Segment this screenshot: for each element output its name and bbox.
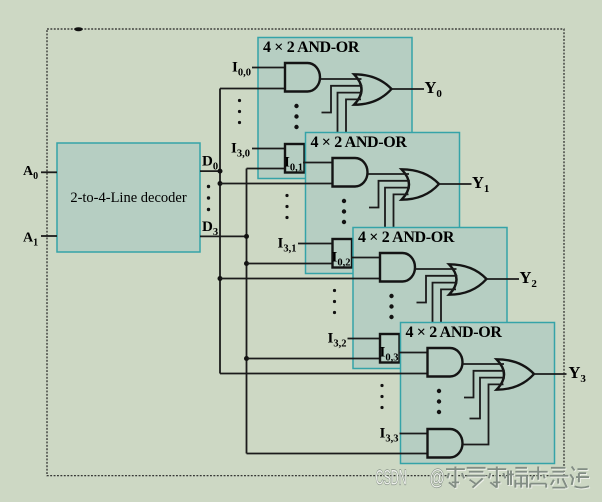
or-gate of block B4 <box>497 359 535 389</box>
or-gate of block B1 <box>354 74 392 104</box>
wire bus D3 vertical <box>246 169 248 454</box>
wire OR output Y1 <box>439 183 472 185</box>
wire bus D0 branch to block B3 top AND <box>220 278 380 280</box>
ellipsis dots inside block B4 <box>437 389 441 414</box>
wire input I3,1 <box>298 243 333 245</box>
wire input I3,3 <box>400 433 428 435</box>
wire input I0,0 <box>252 67 285 69</box>
ellipsis dots left of block B2 <box>285 194 288 219</box>
or-gate of block B2 <box>402 169 440 199</box>
and-gate top of block B4 <box>428 348 463 377</box>
wire bus D3 branch to block B4 bottom AND <box>247 453 428 455</box>
ellipsis dots left of block B3 <box>333 289 336 314</box>
node D0-bus junction <box>218 169 223 174</box>
node bus2-to-block3 junction <box>244 356 249 361</box>
dashed enclosure border <box>47 29 564 476</box>
ellipsis dots left of block B4 <box>380 384 383 409</box>
wire top AND output to OR <box>320 78 362 80</box>
wire input I0,3 <box>399 352 428 354</box>
4x2 AND-OR block B4 <box>401 323 555 464</box>
wire OR output Y2 <box>487 278 520 280</box>
wire hidden-gate feeder B <box>375 188 410 229</box>
4x2 AND-OR block B3 <box>353 228 507 369</box>
wire top AND output to OR <box>415 268 457 270</box>
wire hidden-gate feeder A <box>464 371 505 398</box>
wire A1 input <box>41 235 57 237</box>
wire A0 input <box>41 171 57 173</box>
wire bus D3 branch to block B2 bottom AND <box>247 263 333 265</box>
svg-text:4 × 2 AND-OR: 4 × 2 AND-OR <box>406 324 503 341</box>
wire bus D0 branch to block B1 top AND <box>220 88 285 90</box>
node D3-bus junction <box>244 234 249 239</box>
wire bottom AND output to OR <box>463 384 504 444</box>
wire bus D3 branch to block B3 bottom AND <box>247 358 381 360</box>
wire hidden-gate feeder B <box>422 283 457 324</box>
and-gate bottom of block B4 <box>428 429 463 458</box>
wire hidden-gate feeder B <box>327 93 362 134</box>
and-gate top of block B3 <box>380 253 415 282</box>
and-gate bottom of block B2 <box>333 239 353 268</box>
wire input I0,2 <box>352 257 381 259</box>
wire OR output Y0 <box>392 88 425 90</box>
and-gate top of block B1 <box>285 63 320 92</box>
wire hidden-gate feeder A <box>369 181 410 208</box>
wire bus D0 branch to block B4 top AND <box>220 373 428 375</box>
svg-text:4 × 2 AND-OR: 4 × 2 AND-OR <box>263 39 360 56</box>
node bus2-to-block2 junction <box>244 261 249 266</box>
wire bottom AND output to OR <box>368 194 409 254</box>
4x2 AND-OR block B2 <box>306 133 460 274</box>
and-gate bottom of block B1 <box>285 144 305 173</box>
wire top AND output to OR <box>463 363 505 365</box>
wire D0 from decoder <box>200 170 220 172</box>
svg-text:CSDN: CSDN <box>376 466 407 490</box>
svg-text:4 × 2 AND-OR: 4 × 2 AND-OR <box>311 134 408 151</box>
wire D3 from decoder <box>200 235 247 237</box>
wire bottom AND output to OR <box>415 289 456 349</box>
wire input I3,0 <box>252 148 285 150</box>
smudge mark on top border <box>74 27 82 31</box>
and-gate top of block B2 <box>333 158 368 187</box>
node bus-to-block3 junction <box>218 276 223 281</box>
ellipsis dots inside block B2 <box>342 199 346 224</box>
svg-text:@: @ <box>430 466 445 489</box>
watermark pseudo-CJK glyphs <box>446 467 590 489</box>
wire OR output Y3 <box>534 373 567 375</box>
wire bus D0 branch to block B2 top AND <box>220 183 333 185</box>
svg-text:4 × 2 AND-OR: 4 × 2 AND-OR <box>358 229 455 246</box>
ellipsis dots between D0 and D3 <box>207 185 210 211</box>
ellipsis dots left of block B1 <box>238 99 241 124</box>
wire bottom AND output to OR <box>320 99 361 159</box>
svg-text:2-to-4-Line decoder: 2-to-4-Line decoder <box>70 190 187 206</box>
decoder box U1: 2-to-4-Line decoder <box>57 143 200 252</box>
wire input I0,1 <box>303 162 333 164</box>
ellipsis dots inside block B3 <box>389 294 393 319</box>
and-gate bottom of block B3 <box>380 334 400 363</box>
4x2 AND-OR block B1 <box>258 38 412 179</box>
ellipsis dots inside block B1 <box>294 104 298 129</box>
wire hidden-gate feeder B <box>470 378 505 419</box>
wire hidden-gate feeder A <box>417 276 458 303</box>
wire input I3,2 <box>348 338 381 340</box>
or-gate of block B3 <box>449 264 487 294</box>
wire bus D0 vertical <box>219 89 221 374</box>
wire hidden-gate feeder A <box>322 86 363 113</box>
node bus-to-block2 junction <box>218 181 223 186</box>
wire bus D3 branch to block B1 bottom AND <box>247 168 286 170</box>
wire top AND output to OR <box>368 173 410 175</box>
